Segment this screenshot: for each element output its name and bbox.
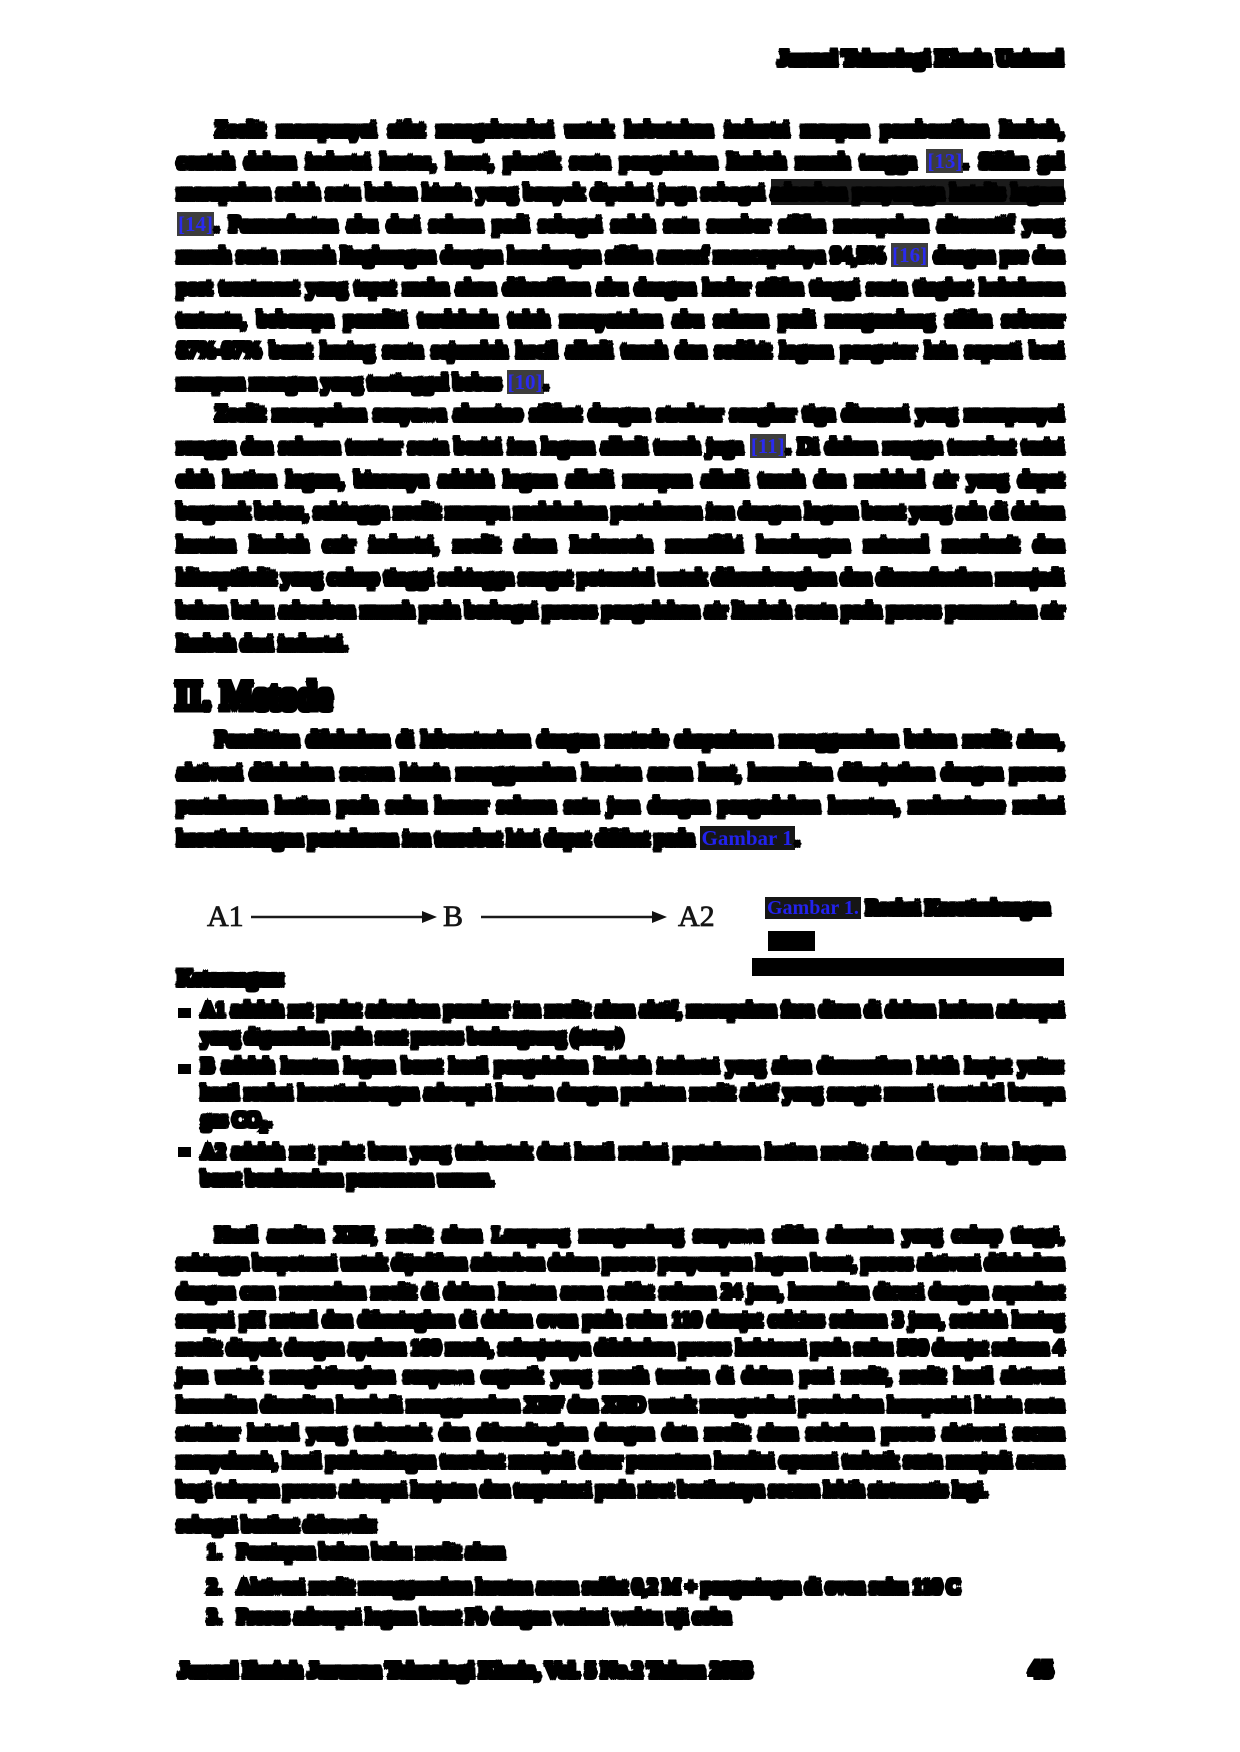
bullet item 2 [201,1053,1064,1140]
footer journal line [178,1655,752,1685]
wire arrow 2 [481,916,652,919]
dimana label [177,963,285,993]
svg-text:A1: A1 [207,900,244,933]
figure caption source line (solid) [752,958,1064,976]
paragraph 3 [177,723,1064,855]
bullet square 2 [178,1064,191,1074]
svg-text:B: B [443,900,463,933]
numbered list item 1 [207,1538,1064,1566]
section heading [175,672,332,721]
running head [0,43,1063,73]
bullet square 1 [178,1008,191,1018]
paragraph 1 [177,114,1064,398]
bullet item 1 [201,997,1064,1051]
numbered list item 2 [207,1573,1064,1601]
figure caption line 1 [765,897,1065,920]
footer page number [1029,1655,1054,1685]
wire arrow 1 [251,916,422,919]
figure diagram: A1 -> B -> A2 [0,880,760,950]
numbered list item 3 [207,1603,1064,1631]
paragraph 2 [177,397,1064,659]
svg-text:A2: A2 [678,900,715,933]
bullet square 3 [178,1147,191,1157]
paragraph 4 [177,1221,1064,1504]
figure caption line 2: [11]. [768,931,815,951]
list intro line [177,1512,377,1539]
bullet item 3 [201,1139,1064,1193]
